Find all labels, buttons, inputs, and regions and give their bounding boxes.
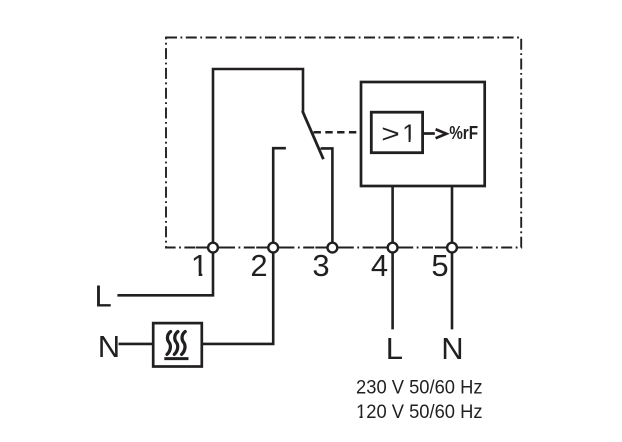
electronics box U1: [361, 82, 485, 186]
wire N to heater: [119, 343, 154, 346]
wire solid border run at terminal 2: [256, 247, 290, 249]
svg-text:5: 5: [431, 248, 448, 283]
svg-text:N: N: [441, 331, 463, 366]
svg-text:N: N: [98, 329, 120, 364]
terminal 5: [447, 243, 457, 253]
wire terminal 5 down to N: [451, 252, 454, 329]
terminal 3: [328, 243, 338, 253]
svg-text:>: >: [381, 120, 400, 149]
svg-text:4: 4: [371, 248, 388, 283]
svg-text:120 V 50/60 Hz: 120 V 50/60 Hz: [356, 402, 483, 423]
terminal 2: [268, 243, 278, 253]
svg-text:1: 1: [191, 248, 208, 283]
wire solid border run at terminal 3: [315, 247, 349, 249]
wire solid border run at terminal 1: [196, 247, 230, 249]
terminal 1: [208, 243, 218, 253]
svg-text:1: 1: [402, 120, 416, 148]
svg-text:L: L: [95, 279, 112, 314]
arrow line from gate output: [423, 132, 435, 135]
wire heater to terminal 2: [202, 252, 273, 344]
device enclosure (dash-dot boundary): [166, 38, 521, 248]
wire electronics to terminal 5: [451, 186, 454, 243]
serif masks to make digit 1 Helvetica-style: [193, 273, 199, 277]
heater wavy line 3: [182, 332, 186, 355]
heater wavy line 2: [174, 332, 178, 355]
wire from terminal 1 up and over to switch common: [213, 69, 303, 243]
OR-gate box (>1): [371, 112, 422, 153]
svg-text:%rF: %rF: [449, 122, 478, 143]
terminal 2 contact and wire: [273, 148, 286, 243]
wire solid border run at terminal 5: [435, 247, 469, 249]
svg-text:3: 3: [312, 248, 329, 283]
heater E1 (box): [153, 323, 202, 366]
arrow chevron: [436, 129, 447, 138]
svg-text:2: 2: [250, 248, 267, 283]
dashed control line from switch to electronics: [314, 131, 362, 134]
terminal 3 contact and wire: [321, 148, 333, 243]
heater wavy line 1: [167, 332, 171, 355]
wire solid border run at terminal 4: [376, 247, 410, 249]
terminal 4: [388, 243, 398, 253]
wire electronics to terminal 4: [391, 186, 394, 243]
svg-text:L: L: [386, 331, 403, 366]
wire terminal 4 down to L: [391, 252, 394, 329]
heater underline: [164, 357, 188, 360]
wire terminal 1 down to L: [117, 252, 213, 295]
svg-text:230 V 50/60 Hz: 230 V 50/60 Hz: [356, 377, 483, 398]
switch blade S1: [302, 111, 323, 159]
